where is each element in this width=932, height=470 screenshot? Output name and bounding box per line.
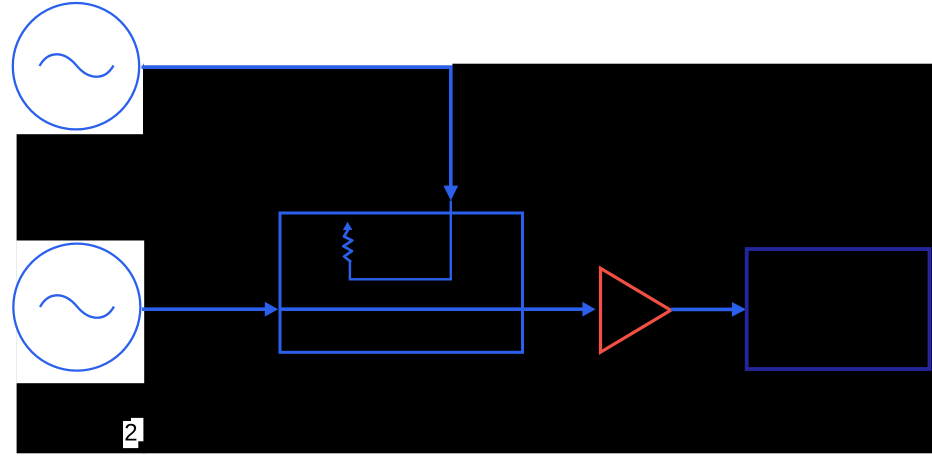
wire mixer to amplifier, arrowhead before amplifier [281, 302, 596, 317]
AC source V2 [13, 244, 140, 371]
coil / squiggle with up arrowhead [343, 222, 353, 261]
AC source V1 [13, 3, 139, 129]
inner feedback wire (node to coil) [350, 201, 451, 280]
label 2 [123, 418, 143, 448]
amplifier (red triangle) [601, 268, 671, 352]
mixer block [280, 213, 523, 352]
wire amplifier to load block, arrowhead at load edge [671, 302, 746, 317]
wire V1 output to mixer (top), with down arrowhead [142, 67, 459, 200]
wire V2 to mixer input, arrowhead at mixer edge [142, 302, 278, 317]
load block (dark blue) [747, 249, 930, 369]
svg-text:2: 2 [124, 419, 137, 446]
